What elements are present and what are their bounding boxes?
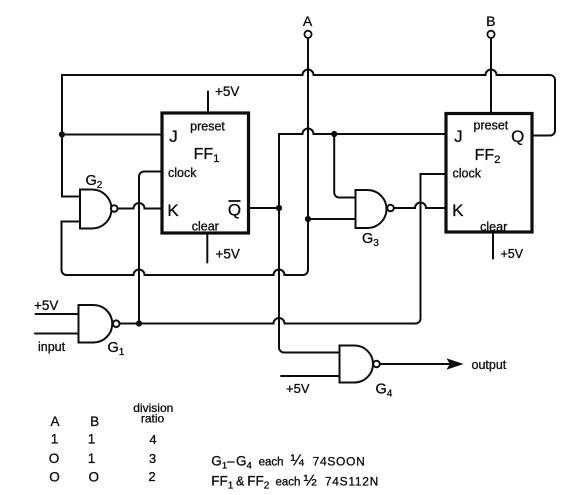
- svg-text:input: input: [38, 340, 66, 354]
- svg-text:&: &: [236, 475, 245, 489]
- svg-text:clear: clear: [480, 220, 507, 234]
- svg-text:+5V: +5V: [34, 298, 58, 313]
- svg-text:Q: Q: [511, 127, 524, 146]
- svg-text:¼: ¼: [291, 453, 305, 470]
- svg-text:–: –: [227, 454, 235, 469]
- svg-text:clock: clock: [453, 167, 482, 181]
- svg-text:½: ½: [304, 473, 317, 490]
- svg-text:clear: clear: [192, 220, 219, 234]
- svg-text:+5V: +5V: [216, 247, 240, 262]
- svg-text:A: A: [50, 414, 59, 429]
- svg-text:K: K: [167, 201, 179, 220]
- svg-text:+5V: +5V: [215, 84, 239, 99]
- svg-text:preset: preset: [190, 120, 225, 134]
- svg-text:A: A: [303, 13, 313, 29]
- svg-text:4: 4: [149, 432, 156, 447]
- svg-text:+5V: +5V: [501, 247, 524, 261]
- svg-text:K: K: [452, 201, 464, 220]
- svg-text:B: B: [486, 13, 495, 29]
- svg-text:preset: preset: [474, 119, 509, 133]
- svg-text:output: output: [472, 358, 507, 372]
- svg-text:each: each: [259, 457, 284, 469]
- svg-text:Q: Q: [228, 201, 241, 220]
- svg-text:O: O: [49, 470, 60, 485]
- svg-text:74SOON: 74SOON: [313, 455, 366, 469]
- svg-text:B: B: [90, 414, 99, 429]
- svg-text:1: 1: [88, 451, 96, 466]
- svg-text:each: each: [276, 477, 301, 489]
- svg-text:2: 2: [148, 469, 155, 484]
- svg-text:74S112N: 74S112N: [325, 475, 379, 489]
- svg-text:O: O: [49, 451, 60, 466]
- svg-text:J: J: [454, 127, 463, 146]
- svg-text:3: 3: [149, 451, 156, 466]
- svg-text:J: J: [169, 127, 178, 146]
- svg-text:1: 1: [51, 432, 59, 447]
- svg-text:clock: clock: [168, 166, 197, 180]
- svg-text:1: 1: [88, 432, 96, 447]
- svg-text:O: O: [89, 470, 100, 485]
- svg-text:ratio: ratio: [141, 412, 165, 426]
- svg-text:+5V: +5V: [286, 381, 310, 396]
